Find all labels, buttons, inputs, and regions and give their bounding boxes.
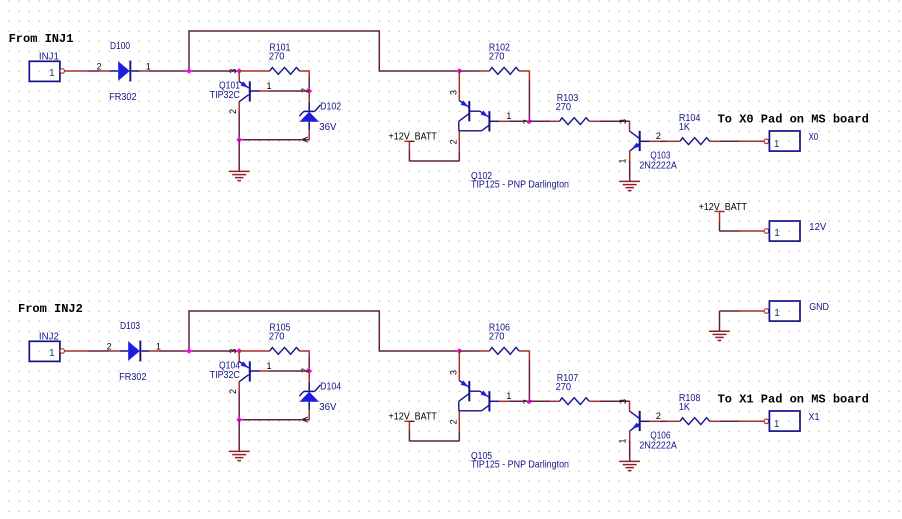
- wire: [239, 419, 309, 421]
- svg-text:270: 270: [489, 332, 505, 343]
- svg-text:2: 2: [228, 109, 238, 114]
- svg-text:TIP32C: TIP32C: [210, 370, 240, 381]
- resistor R103: [529, 120, 550, 122]
- svg-text:To X1 Pad on MS board: To X1 Pad on MS board: [718, 393, 869, 407]
- svg-text:12V: 12V: [809, 222, 826, 233]
- svg-text:1: 1: [618, 158, 628, 163]
- wire: [239, 139, 309, 141]
- svg-text:36V: 36V: [319, 402, 337, 413]
- wire pin2 to +12V_BATT: [458, 411, 460, 432]
- svg-text:X1: X1: [809, 412, 820, 423]
- svg-text:3: 3: [618, 399, 628, 404]
- svg-text:TIP32C: TIP32C: [210, 90, 240, 101]
- connector GND: [764, 309, 769, 314]
- svg-text:2: 2: [107, 341, 112, 351]
- resistor R106: [459, 350, 480, 352]
- svg-text:3: 3: [618, 119, 628, 124]
- node junction: [527, 118, 533, 124]
- net label +12V_BATT: [404, 140, 414, 142]
- ground: [619, 180, 640, 182]
- svg-text:270: 270: [556, 102, 572, 113]
- node junction: [186, 348, 192, 354]
- svg-text:2: 2: [656, 411, 661, 421]
- wire: [109, 350, 120, 352]
- ground: [709, 330, 730, 332]
- wire feedback: [189, 31, 459, 71]
- svg-text:1: 1: [618, 438, 628, 443]
- svg-text:INJ2: INJ2: [39, 331, 59, 342]
- connector INJ2: [29, 341, 60, 361]
- resistor R102: [459, 70, 480, 72]
- svg-text:From INJ1: From INJ1: [9, 32, 74, 46]
- ground: [619, 460, 640, 462]
- svg-text:1: 1: [49, 68, 55, 79]
- svg-text:FR302: FR302: [109, 92, 137, 103]
- wire: [160, 350, 241, 352]
- ground: [229, 170, 250, 172]
- wire: [65, 70, 89, 72]
- ground: [229, 450, 250, 452]
- svg-text:1: 1: [506, 111, 511, 121]
- svg-text:D103: D103: [120, 321, 140, 332]
- wire feedback: [189, 311, 459, 351]
- svg-text:3: 3: [228, 69, 238, 74]
- node junction: [236, 348, 242, 354]
- node junction: [236, 137, 242, 143]
- svg-text:TIP125 - PNP Darlington: TIP125 - PNP Darlington: [471, 460, 569, 471]
- svg-text:1: 1: [774, 308, 780, 319]
- svg-text:2: 2: [97, 61, 102, 71]
- svg-text:From INJ2: From INJ2: [18, 302, 83, 316]
- transistor Q104: [238, 351, 240, 362]
- svg-text:2: 2: [448, 419, 458, 424]
- transistor Q106: [629, 401, 631, 411]
- wire to 12V connector: [719, 211, 721, 222]
- svg-text:1K: 1K: [679, 402, 690, 413]
- svg-text:3: 3: [449, 90, 459, 95]
- transistor Q103: [629, 121, 631, 131]
- resistor R101: [240, 70, 270, 72]
- svg-text:270: 270: [489, 52, 505, 63]
- svg-text:270: 270: [269, 332, 285, 343]
- connector X1: [740, 420, 764, 422]
- wire to ground: [238, 420, 240, 452]
- resistor R104: [660, 140, 666, 142]
- wire: [99, 70, 110, 72]
- svg-text:1: 1: [146, 61, 151, 71]
- wire to ground: [238, 140, 240, 172]
- zener diode D102: [308, 91, 310, 103]
- svg-text:+12V_BATT: +12V_BATT: [389, 132, 437, 143]
- node junction: [236, 68, 242, 74]
- node junction: [456, 348, 462, 354]
- resistor R105: [240, 350, 270, 352]
- svg-text:2N2222A: 2N2222A: [639, 441, 677, 452]
- svg-text:X0: X0: [809, 132, 819, 143]
- node junction: [527, 398, 533, 404]
- svg-text:D100: D100: [110, 41, 130, 52]
- svg-text:+12V_BATT: +12V_BATT: [389, 412, 437, 423]
- wire: [65, 350, 89, 352]
- resistor R107: [529, 400, 550, 402]
- connector X0: [740, 140, 764, 142]
- transistor Q105: [458, 351, 460, 381]
- wire to ground: [629, 161, 631, 181]
- svg-text:2N2222A: 2N2222A: [639, 161, 677, 172]
- svg-text:270: 270: [269, 52, 285, 63]
- node junction: [186, 68, 192, 74]
- svg-text:FR302: FR302: [119, 372, 147, 383]
- wire to GND connector: [719, 311, 721, 331]
- connector 12V: [764, 229, 769, 234]
- svg-text:D104: D104: [320, 382, 341, 393]
- wire: [238, 392, 240, 420]
- node junction: [306, 88, 312, 94]
- svg-text:INJ1: INJ1: [39, 51, 59, 62]
- svg-text:1: 1: [774, 419, 780, 430]
- svg-text:1: 1: [774, 139, 780, 150]
- svg-text:To X0 Pad on MS board: To X0 Pad on MS board: [718, 113, 869, 127]
- svg-text:1: 1: [156, 341, 161, 351]
- svg-text:GND: GND: [809, 302, 829, 313]
- resistor R108: [660, 420, 666, 422]
- transistor Q102: [458, 71, 460, 101]
- svg-text:36V: 36V: [319, 122, 337, 133]
- wire: [150, 70, 241, 72]
- wire: [238, 112, 240, 140]
- svg-text:2: 2: [228, 389, 238, 394]
- connector INJ1: [29, 61, 60, 81]
- svg-text:1: 1: [267, 81, 272, 91]
- svg-text:1: 1: [774, 228, 780, 239]
- svg-text:3: 3: [228, 349, 238, 354]
- svg-text:2: 2: [656, 131, 661, 141]
- svg-text:1: 1: [267, 361, 272, 371]
- transistor Q101: [238, 71, 240, 82]
- svg-text:2: 2: [448, 139, 458, 144]
- node junction: [456, 68, 462, 74]
- svg-text:270: 270: [556, 382, 572, 393]
- node junction: [306, 368, 312, 374]
- wire pin2 to +12V_BATT: [458, 131, 460, 152]
- wire to ground: [629, 441, 631, 461]
- net label +12V_BATT: [404, 420, 414, 422]
- svg-text:1: 1: [506, 391, 511, 401]
- node junction: [236, 417, 242, 423]
- svg-text:D102: D102: [320, 102, 341, 113]
- svg-text:3: 3: [449, 370, 459, 375]
- zener diode D104: [308, 371, 310, 383]
- svg-text:1: 1: [49, 348, 55, 359]
- svg-text:TIP125 - PNP Darlington: TIP125 - PNP Darlington: [471, 180, 569, 191]
- svg-text:1K: 1K: [679, 122, 690, 133]
